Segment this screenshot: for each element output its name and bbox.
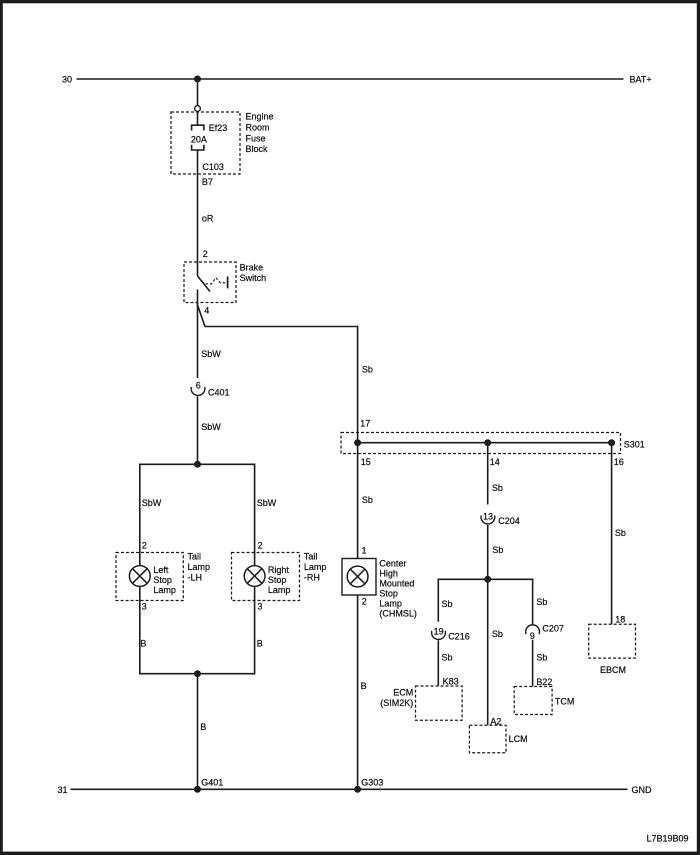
svg-text:13: 13: [483, 512, 493, 522]
svg-text:Tail: Tail: [188, 552, 202, 562]
svg-text:20A: 20A: [191, 135, 207, 145]
svg-text:Right: Right: [268, 565, 290, 575]
junction on bus 30: [194, 76, 201, 83]
svg-text:6: 6: [196, 381, 201, 391]
svg-text:SbW: SbW: [257, 498, 277, 508]
LCM box: [469, 725, 506, 753]
connector C204: [481, 515, 495, 524]
wire C204 to junction: [487, 525, 489, 579]
wire stop lamp bottom rail: [140, 586, 255, 673]
svg-text:B22: B22: [536, 677, 552, 687]
svg-text:SbW: SbW: [201, 349, 221, 359]
svg-text:-RH: -RH: [304, 573, 320, 583]
right stop lamp box: [232, 553, 300, 601]
svg-text:Center: Center: [379, 559, 406, 569]
label Right Stop Lamp: [268, 565, 291, 595]
svg-text:Sb: Sb: [492, 483, 503, 493]
svg-text:31: 31: [57, 785, 67, 795]
label Brake Switch: [240, 263, 267, 284]
svg-text:Lamp: Lamp: [304, 562, 327, 572]
svg-text:17: 17: [360, 419, 370, 429]
svg-text:Sb: Sb: [362, 495, 373, 505]
svg-text:B: B: [257, 638, 263, 648]
svg-text:Brake: Brake: [240, 263, 264, 273]
junction S301 pin 16: [608, 439, 615, 446]
wire SbW C401 to lamp junction: [197, 396, 199, 464]
svg-text:2: 2: [203, 249, 208, 259]
junction S301 pin 14: [484, 439, 491, 446]
fuse Ef23: [192, 111, 204, 150]
svg-text:Sb: Sb: [536, 597, 547, 607]
svg-text:Sb: Sb: [536, 652, 547, 662]
svg-text:Sb: Sb: [492, 629, 503, 639]
svg-text:3: 3: [142, 602, 147, 612]
svg-text:B: B: [361, 681, 367, 691]
svg-text:Switch: Switch: [240, 273, 267, 283]
wire Sb C207 to TCM: [532, 640, 534, 687]
wire Sb S301 pin 15 to CHMSL: [357, 443, 359, 559]
svg-text:2: 2: [142, 541, 147, 551]
TCM box: [514, 687, 552, 715]
svg-text:TCM: TCM: [555, 697, 575, 707]
svg-text:oR: oR: [202, 214, 214, 224]
wire bus 30 to fuse block: [197, 79, 199, 106]
wire Sb C216 to ECM: [437, 640, 439, 686]
svg-text:Sb: Sb: [615, 528, 626, 538]
svg-text:EBCM: EBCM: [600, 665, 626, 675]
svg-text:16: 16: [614, 457, 624, 467]
wire Sb junction to C207: [532, 579, 534, 624]
svg-text:L7B19B09: L7B19B09: [646, 833, 688, 843]
svg-text:Sb: Sb: [492, 545, 503, 555]
svg-text:C204: C204: [498, 516, 520, 526]
lamp CHMSL: [347, 566, 368, 587]
svg-text:18: 18: [615, 615, 625, 625]
junction ground G401: [194, 786, 201, 793]
svg-text:9: 9: [530, 631, 535, 641]
wire Sb junction to LCM: [487, 579, 489, 725]
junction ground G303: [354, 786, 361, 793]
svg-text:High: High: [379, 569, 398, 579]
splice S301 bus wire: [358, 442, 612, 444]
svg-text:15: 15: [361, 457, 371, 467]
connector C401: [191, 387, 205, 396]
svg-text:SbW: SbW: [142, 498, 162, 508]
svg-text:C103: C103: [202, 162, 224, 172]
label Center High Mounted Stop Lamp (CHMSL): [379, 559, 417, 619]
EBCM box: [589, 624, 636, 658]
ECM box: [416, 686, 463, 720]
wire Sb S301 pin 16 to EBCM: [611, 443, 613, 625]
wire branch brake switch to S301 pin 17: [198, 305, 358, 443]
lamp Left Stop Lamp: [129, 566, 150, 587]
svg-text:Sb: Sb: [442, 652, 453, 662]
svg-text:Tail: Tail: [304, 552, 318, 562]
svg-text:Lamp: Lamp: [379, 599, 402, 609]
lamp Right Stop Lamp: [244, 566, 265, 587]
wire Sb S301 pin 14 to C204: [487, 443, 489, 505]
wire bus 30 / BAT+: [77, 78, 624, 80]
wire CHMSL to G303: [357, 595, 359, 789]
svg-text:Stop: Stop: [379, 589, 398, 599]
svg-text:GND: GND: [632, 785, 653, 795]
brake switch contacts: [198, 262, 211, 305]
junction distribution: [484, 576, 491, 583]
brake switch box: [184, 262, 236, 303]
wire fuse to brake switch: [197, 150, 199, 262]
svg-text:B: B: [140, 638, 146, 648]
svg-text:Lamp: Lamp: [153, 585, 176, 595]
svg-text:B7: B7: [202, 177, 213, 187]
CHMSL box: [342, 559, 376, 596]
svg-text:G401: G401: [201, 777, 223, 787]
left stop lamp box: [116, 553, 183, 601]
label Tail Lamp -LH: [188, 552, 211, 583]
label Engine Room Fuse Block: [246, 112, 274, 155]
svg-text:-LH: -LH: [188, 573, 203, 583]
svg-text:Sb: Sb: [362, 365, 373, 375]
svg-text:19: 19: [434, 626, 444, 636]
svg-text:Engine: Engine: [246, 112, 274, 122]
svg-text:LCM: LCM: [509, 734, 528, 744]
splice S301 box: [341, 433, 621, 454]
svg-text:C216: C216: [448, 631, 470, 641]
svg-text:K83: K83: [443, 676, 459, 686]
svg-text:Left: Left: [153, 565, 169, 575]
svg-text:Block: Block: [246, 144, 269, 154]
svg-text:2: 2: [258, 541, 263, 551]
svg-text:Ef23: Ef23: [209, 123, 228, 133]
svg-text:3: 3: [257, 602, 262, 612]
connector C216: [432, 631, 446, 640]
svg-text:4: 4: [204, 306, 209, 316]
connector C207: [526, 625, 540, 634]
connector circle at fuse block input: [195, 106, 201, 112]
svg-text:S301: S301: [624, 439, 645, 449]
svg-text:Stop: Stop: [268, 575, 287, 585]
junction stop lamp feed: [194, 461, 201, 468]
wire distribution rail: [438, 578, 532, 581]
svg-text:1: 1: [362, 546, 367, 556]
svg-text:B: B: [200, 722, 206, 732]
wire stop lamp top rail: [140, 464, 255, 565]
svg-text:2: 2: [362, 597, 367, 607]
svg-text:G303: G303: [361, 777, 383, 787]
label ECM (SIM2K): [380, 688, 413, 708]
svg-text:(SIM2K): (SIM2K): [380, 698, 413, 708]
wire bus 31 / GND: [71, 788, 628, 790]
label Tail Lamp -RH: [304, 552, 327, 583]
brake switch actuator link: [206, 276, 228, 288]
svg-text:BAT+: BAT+: [630, 75, 652, 85]
svg-text:30: 30: [62, 75, 72, 85]
engine room fuse block box: [171, 112, 240, 174]
svg-text:C207: C207: [542, 624, 564, 634]
label Left Stop Lamp: [153, 565, 176, 595]
svg-text:14: 14: [490, 457, 500, 467]
junction S301 pin 15: [354, 439, 361, 446]
wire Sb junction to C216: [437, 579, 439, 621]
svg-text:Sb: Sb: [442, 599, 453, 609]
svg-text:Room: Room: [246, 122, 270, 132]
svg-text:SbW: SbW: [201, 422, 221, 432]
wire lamps to G401: [197, 674, 199, 790]
wire SbW brake switch to C401: [197, 303, 199, 379]
svg-text:Lamp: Lamp: [268, 585, 291, 595]
svg-text:Lamp: Lamp: [188, 562, 211, 572]
svg-text:Stop: Stop: [153, 575, 172, 585]
svg-text:Mounted: Mounted: [379, 579, 414, 589]
svg-text:C401: C401: [208, 388, 230, 398]
junction stop lamp ground: [194, 670, 201, 677]
svg-text:Fuse: Fuse: [246, 133, 266, 143]
svg-text:ECM: ECM: [393, 688, 413, 698]
svg-text:(CHMSL): (CHMSL): [379, 609, 417, 619]
